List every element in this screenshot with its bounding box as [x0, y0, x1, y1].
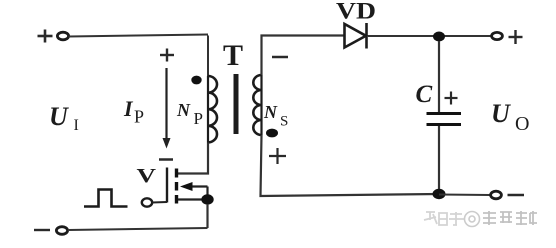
output plus sign — [509, 30, 523, 44]
wire secondary top — [262, 36, 345, 76]
wire body to source — [206, 187, 208, 200]
wire bottom-left rail — [68, 228, 208, 230]
source junction dot — [201, 194, 213, 204]
junction node top — [433, 32, 445, 42]
input negative terminal — [56, 227, 67, 235]
current arrow I_P — [165, 68, 167, 139]
svg-text:T: T — [223, 39, 243, 72]
MOSFET body arrow — [184, 185, 208, 187]
pulse waveform — [84, 190, 128, 207]
junction node bottom — [433, 189, 446, 199]
svg-text:I: I — [74, 117, 79, 134]
svg-text:I: I — [123, 96, 134, 121]
input plus sign — [38, 30, 53, 43]
wire source to bottom rail — [206, 204, 208, 228]
MOSFET V gate bar — [166, 168, 168, 203]
gate lead wire — [152, 201, 167, 204]
secondary dot mark — [266, 129, 278, 138]
transformer primary winding N_P — [208, 76, 217, 142]
output minus sign — [508, 194, 525, 196]
svg-text:S: S — [280, 114, 288, 130]
MOSFET channel segments — [175, 169, 178, 204]
wire top-left rail — [69, 35, 209, 37]
wire bottom-right to terminal — [439, 194, 490, 197]
gate terminal circle — [142, 198, 152, 206]
svg-text:V: V — [137, 165, 157, 187]
output positive terminal — [492, 32, 503, 39]
wire primary top (rail corner down to winding) — [207, 36, 209, 78]
MOSFET source stub — [178, 198, 208, 200]
svg-text:P: P — [194, 109, 203, 128]
wire primary bottom to drain — [178, 143, 208, 174]
svg-text:P: P — [134, 107, 144, 127]
svg-text:U: U — [491, 99, 511, 128]
svg-text:C: C — [416, 81, 433, 108]
watermark zhihu — [424, 212, 464, 225]
svg-text:O: O — [515, 113, 529, 135]
output negative terminal — [491, 191, 502, 199]
wire diode to output — [368, 35, 491, 37]
svg-text:N: N — [263, 102, 278, 122]
capacitor C — [438, 41, 440, 112]
diode VD — [345, 23, 367, 49]
capacitor plus mark — [445, 92, 458, 105]
wire secondary bottom — [261, 135, 440, 196]
secondary polarity minus (top) — [272, 56, 288, 59]
primary dot mark — [191, 76, 201, 85]
secondary polarity plus (bottom) — [269, 148, 286, 164]
input minus sign — [34, 229, 50, 231]
transformer core — [234, 74, 239, 134]
primary polarity minus — [159, 158, 173, 161]
input positive terminal — [57, 32, 68, 40]
svg-text:U: U — [49, 102, 69, 131]
transformer secondary winding N_S — [253, 75, 261, 135]
svg-text:VD: VD — [336, 0, 376, 24]
primary polarity plus — [160, 49, 174, 62]
svg-text:N: N — [176, 100, 191, 120]
